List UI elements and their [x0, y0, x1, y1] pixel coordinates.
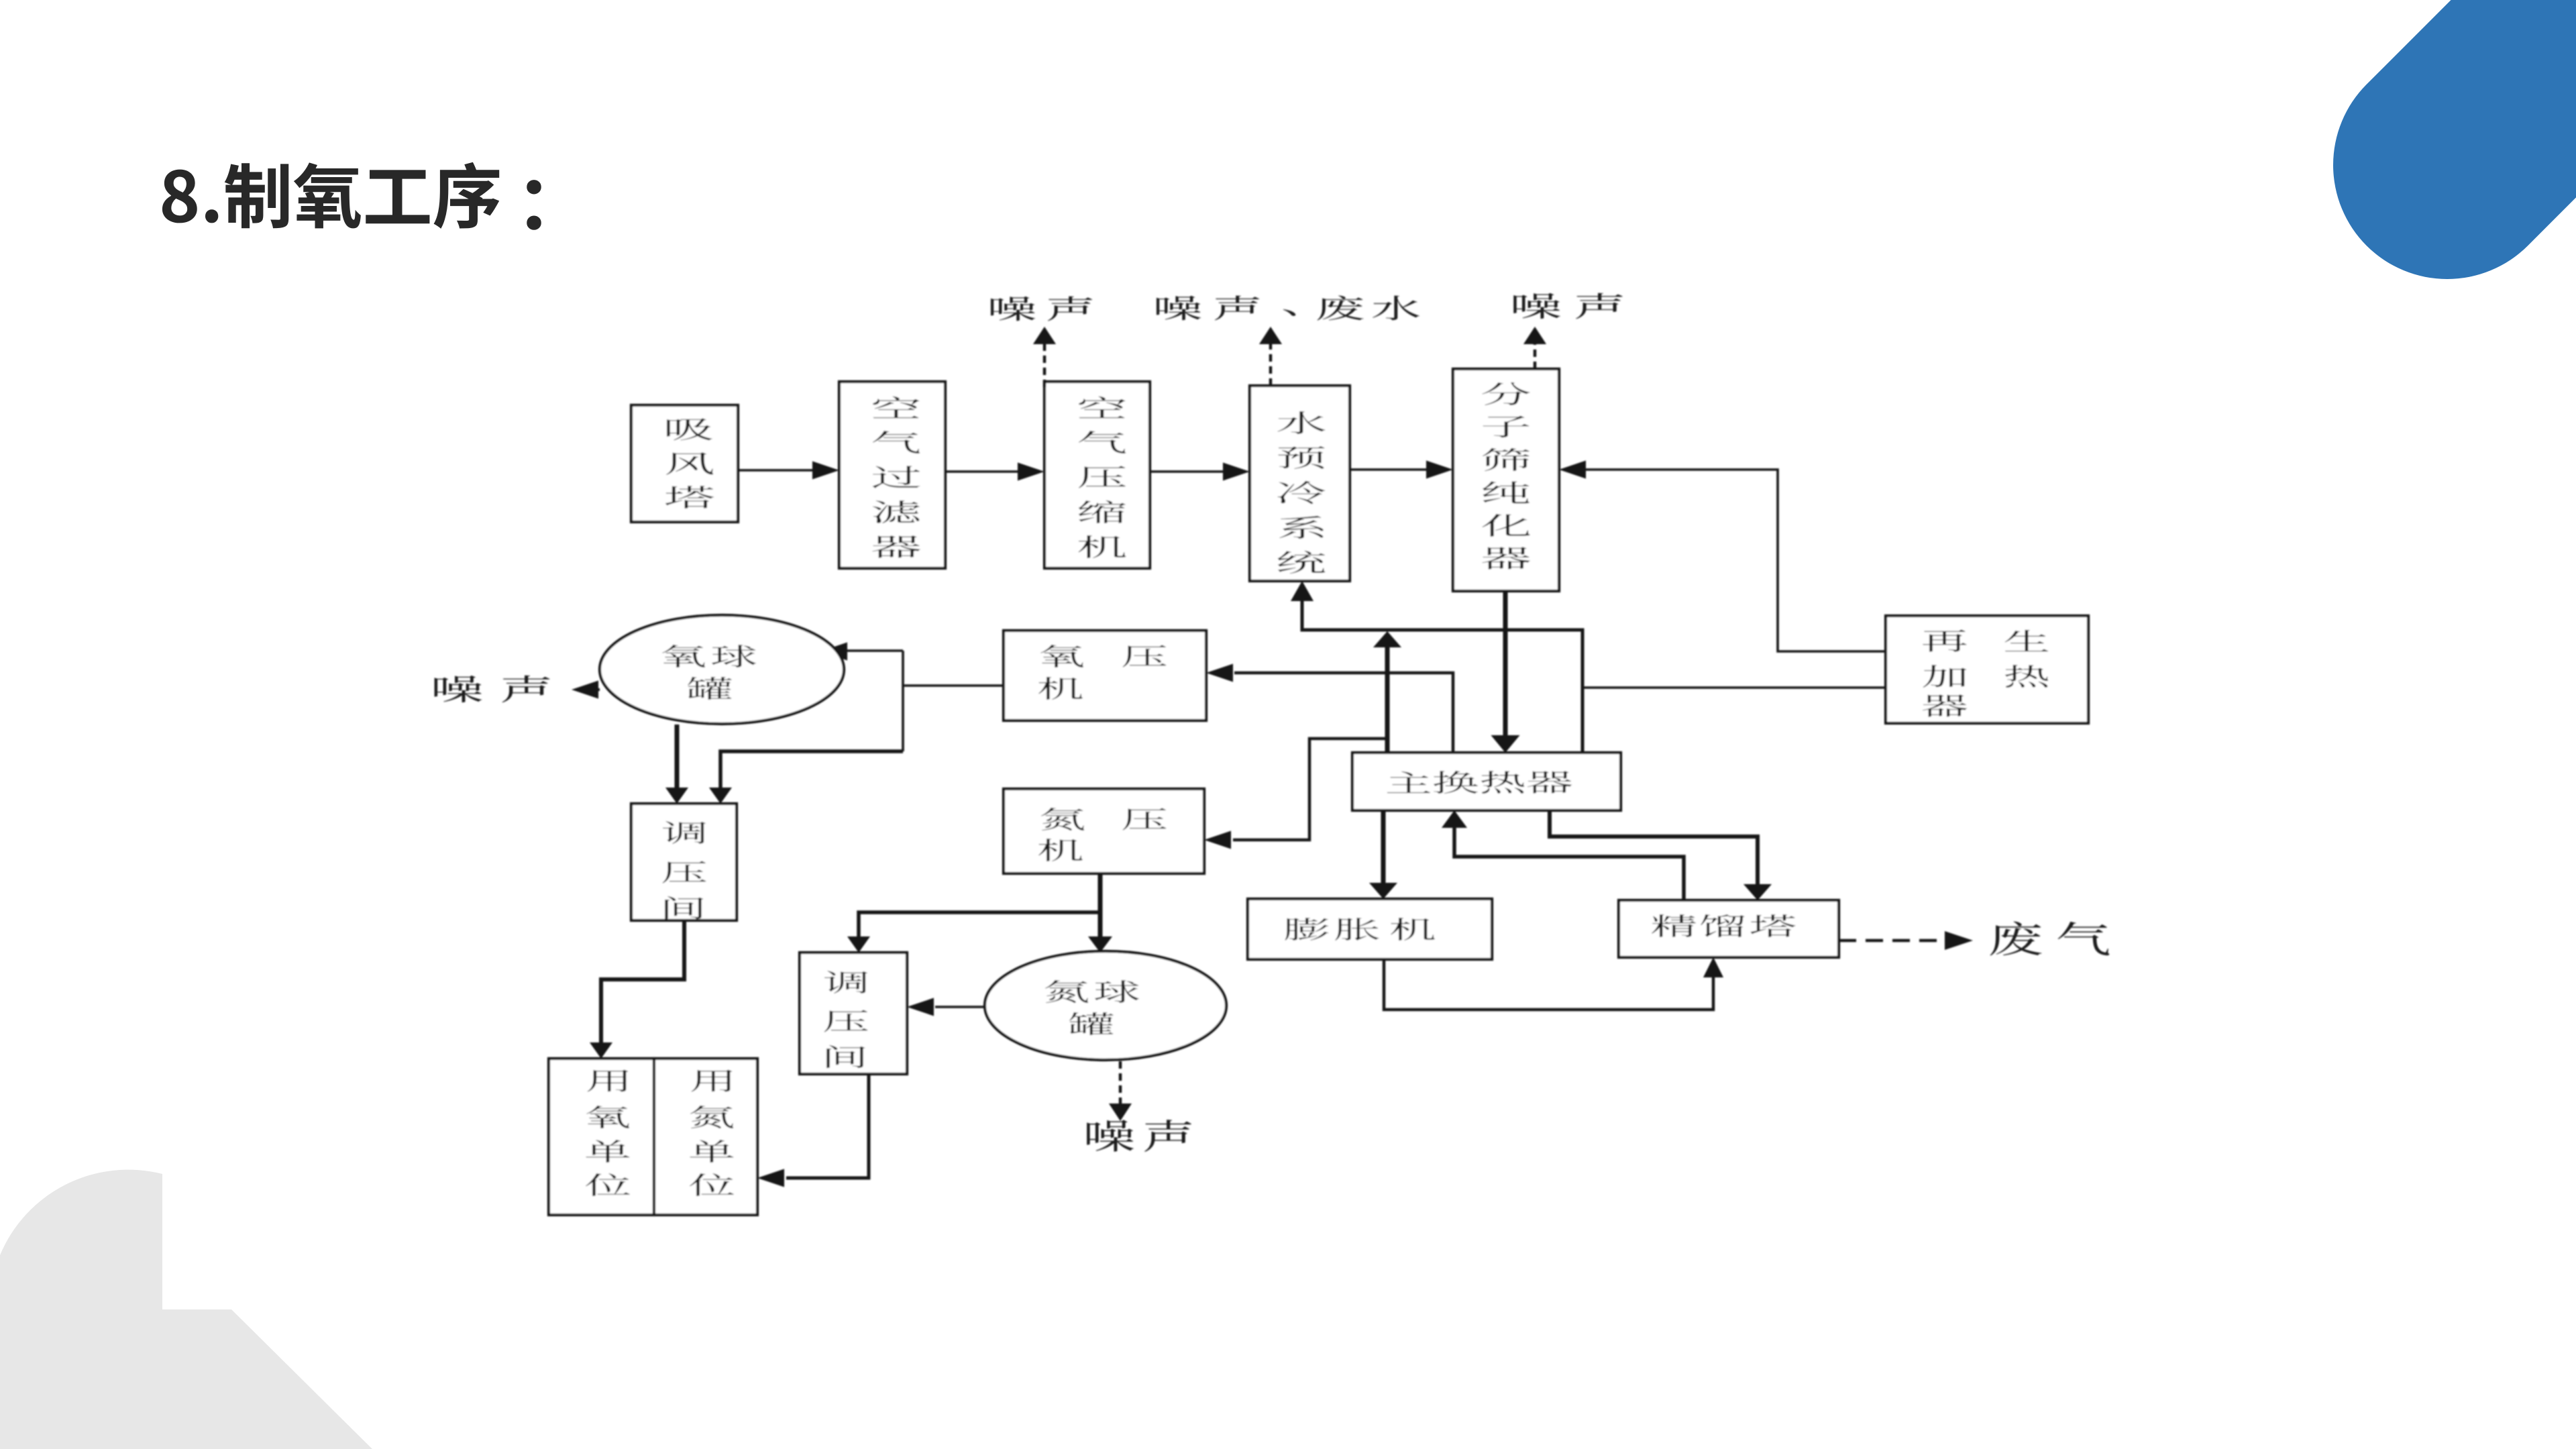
arrowhead into 分子筛纯化器 right [1559, 461, 1586, 479]
arrowhead noise above 空气压缩机 [1033, 327, 1056, 344]
dashed wire noise from 空气压缩机 top [1043, 344, 1046, 387]
decor gray ribbon bottom-left corner [0, 1170, 372, 1449]
thick wire 分子筛纯化器→主换热器 [1503, 591, 1508, 738]
arrowhead into 精馏塔 top [1743, 884, 1772, 900]
arrowhead into 精馏塔 bottom [1703, 957, 1723, 977]
box 调压间 oxygen [631, 804, 737, 920]
arrowhead into 空气压缩机 [1018, 463, 1044, 481]
arrowhead into 用氧单位 top [590, 1042, 612, 1059]
box 氧压机 [1004, 631, 1206, 720]
wire 精馏塔→主换热器 return [1454, 825, 1684, 900]
arrowhead noise above 分子筛纯化器 [1523, 327, 1546, 344]
wire branch 氮压机→调压间2 [859, 912, 1100, 938]
arrowhead bypass into 调压间 top [709, 788, 732, 804]
wire 再生加热器→分子筛纯化器 (reactivation air) [1583, 470, 1886, 651]
box 空气过滤器 [839, 382, 945, 568]
arrowhead joining return line [1373, 631, 1401, 647]
arrowhead 废气 [1945, 931, 1973, 950]
dashed wire noise from 水预冷系统 top [1269, 344, 1273, 386]
wire into 氧球罐 right [846, 649, 903, 652]
wire 氮球罐→调压间2 [935, 1006, 985, 1008]
box 用氮单位 [654, 1059, 757, 1215]
arrowhead into 分子筛纯化器 left [1426, 461, 1453, 479]
arrowhead noise above 水预冷系统 [1259, 327, 1282, 344]
arrowhead noise below 氮球罐 [1109, 1104, 1132, 1121]
decor blue capsule top-right corner [2447, 0, 2576, 165]
box 再生加热器 [1886, 616, 2088, 723]
box 调压间 nitrogen [800, 953, 907, 1074]
box 吸风塔 [631, 405, 738, 522]
box 膨胀机 [1248, 899, 1492, 959]
wire bypass to 调压间 [720, 751, 903, 789]
label 噪声 below 氮球罐 [1087, 1120, 1134, 1151]
arrowhead into 主换热器 top [1491, 735, 1520, 753]
box 主换热器 [1352, 753, 1621, 810]
label 废气 [1990, 922, 2042, 956]
wire 调压间2→用氮单位 [786, 1074, 869, 1178]
thick wire 主换热器 top joint up-arrow [1385, 646, 1390, 753]
arrowhead into 调压间2 right [907, 998, 934, 1016]
dashed wire 精馏塔→废气 [1839, 939, 1945, 943]
label 噪声 above 分子筛纯化器 [1513, 293, 1560, 319]
arrowhead into 氮压机 right [1204, 831, 1231, 849]
box 空气压缩机 [1044, 382, 1150, 568]
arrowhead into 调压间 top [665, 788, 688, 804]
wire 主换热器→水预冷系统 return [1302, 596, 1582, 753]
thick wire 主换热器→膨胀机 [1381, 810, 1386, 884]
thick wire 调压间→用氧单位 [601, 920, 684, 1044]
arrowhead 氧球罐→噪声 [594, 688, 600, 691]
wire branch to 氮压机 [1233, 739, 1387, 840]
wire 空气过滤器→空气压缩机 [945, 470, 1019, 473]
label 噪声 left of 氧球罐 [435, 676, 482, 702]
arrowhead into 用氮单位 right [757, 1169, 784, 1187]
wire riser to 氧压机 [1234, 673, 1453, 753]
wire 吸风塔→空气过滤器 [738, 469, 814, 472]
box 水预冷系统 [1250, 386, 1350, 581]
dashed wire 氮球罐→噪声 [1119, 1061, 1122, 1104]
label 噪声 above 空气压缩机 [991, 297, 1035, 321]
dashed wire noise from 分子筛纯化器 top [1534, 344, 1537, 369]
arrowhead into 主换热器 bottom [1442, 810, 1467, 828]
thick wire 主换热器→精馏塔 [1550, 810, 1758, 885]
wire 空气压缩机→水预冷系统 [1150, 470, 1224, 473]
title 8.制氧工序： [162, 170, 197, 223]
arrowhead into 膨胀机 top [1369, 883, 1397, 899]
wire 氧压机→氧球罐 junction [903, 684, 1004, 687]
wire 主换热器riser→再生加热器 [1582, 686, 1886, 689]
label 噪声、废水 above 水预冷系统 [1157, 296, 1201, 320]
arrowhead into 空气过滤器 [812, 462, 839, 480]
arrowhead into 氧压机 right [1206, 664, 1233, 682]
ellipse 氮球罐 [985, 951, 1226, 1060]
arrowhead into 氧球罐 [820, 643, 847, 661]
wire 水预冷系统→分子筛纯化器 [1350, 468, 1428, 471]
thick wire 氮压机→氮球罐 [1098, 873, 1103, 938]
arrowhead into 调压间2 top [847, 936, 870, 953]
box 分子筛纯化器 [1453, 369, 1559, 591]
arrowhead into 氮球罐 top [1088, 936, 1112, 953]
box 精馏塔 [1619, 900, 1839, 957]
arrowhead into 水预冷系统 [1223, 463, 1250, 481]
ellipse 氧球罐 [600, 615, 844, 724]
box 用氧单位 [549, 1059, 654, 1215]
wire 膨胀机→精馏塔 bottom [1384, 959, 1713, 1010]
box 氮压机 [1004, 789, 1204, 873]
thick wire 氧球罐→调压间 [675, 724, 680, 789]
arrowhead into 水预冷系统 bottom [1291, 581, 1313, 601]
